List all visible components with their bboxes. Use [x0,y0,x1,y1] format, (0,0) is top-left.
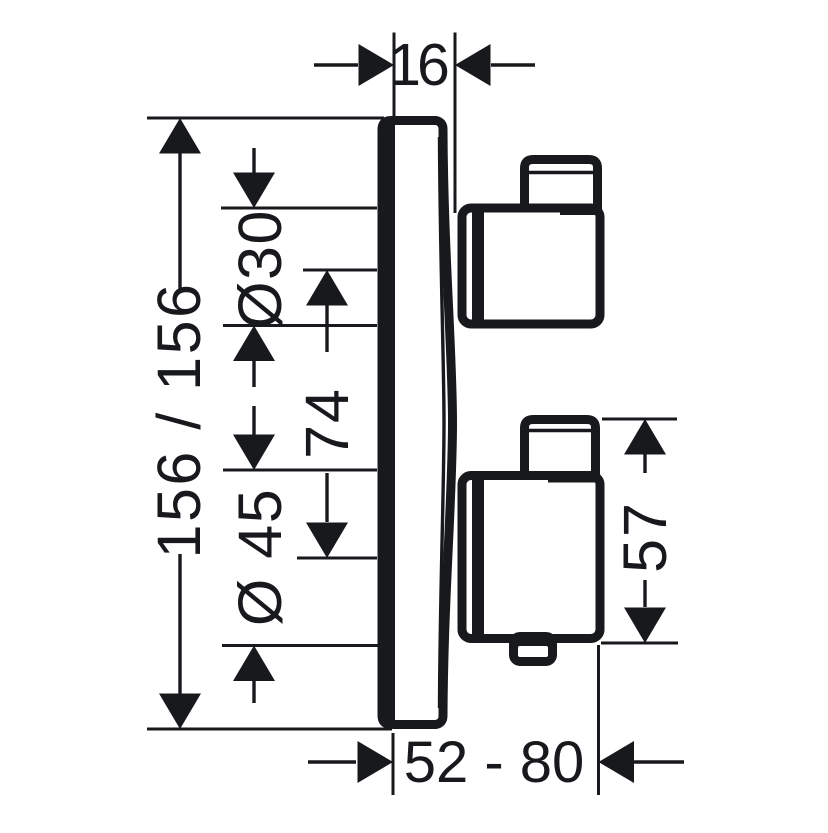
label 16 [388,32,448,98]
faceplate (escutcheon, side view) [382,121,453,725]
label 74 [293,387,361,459]
extension line top of plate (156 top) [147,117,384,120]
dimension 57 line with arrows [624,419,666,643]
dimension 16 arrows [314,44,535,86]
extension line 57 bottom [601,642,678,645]
svg-text:52 - 80: 52 - 80 [404,730,585,795]
dimension 156/156 vertical line with arrows [159,118,201,729]
extension line 57 top [602,418,677,421]
extension line C: bottom handle top edge [223,469,377,472]
bottom handle cap inner line [527,429,592,432]
extension line D: bottom handle bottom edge [222,644,378,647]
bottom handle inner thin line [548,480,600,483]
extension line B: top handle bottom edge [223,324,377,327]
bottom handle sleeve inner line [472,474,484,637]
dimension O30 line with arrows [233,148,275,703]
extension line: top handle centerline [303,269,377,272]
svg-text:Ø30: Ø30 [226,209,294,329]
bottom handle (volume control) [462,420,600,663]
extension line: bottom handle centerline [297,557,377,560]
svg-text:16: 16 [388,32,448,98]
dimension 52-80 arrows [308,741,684,783]
svg-text:57: 57 [611,501,679,573]
top handle cap inner line [527,171,595,174]
extension line bottom of plate (156 bottom) [147,728,392,731]
bottom handle body [462,476,600,639]
top handle body (thermostat handle) [462,160,600,325]
label 57 [611,501,679,573]
svg-text:156 / 156: 156 / 156 [145,282,213,559]
svg-text:74: 74 [293,387,361,459]
svg-text:Ø 45: Ø 45 [226,488,294,626]
extension line A: top handle top edge [221,207,377,210]
label O30 [226,209,294,329]
label 52 - 80 [404,730,585,795]
top handle sleeve inner line [472,207,484,324]
dimension 74 line with arrows [306,270,348,558]
extension line 52-80 left [392,733,395,795]
extension line 16 right [454,33,457,214]
top handle inner thin line [560,212,600,215]
top handle cap [525,160,598,217]
label 156 / 156 [145,282,213,559]
bottom handle cap [525,420,596,479]
label O 45 [226,488,294,626]
extension line 16 left [393,33,396,123]
bottom handle safety tab [513,636,553,662]
extension line 52-80 right [597,645,600,795]
top handle body [462,208,600,324]
